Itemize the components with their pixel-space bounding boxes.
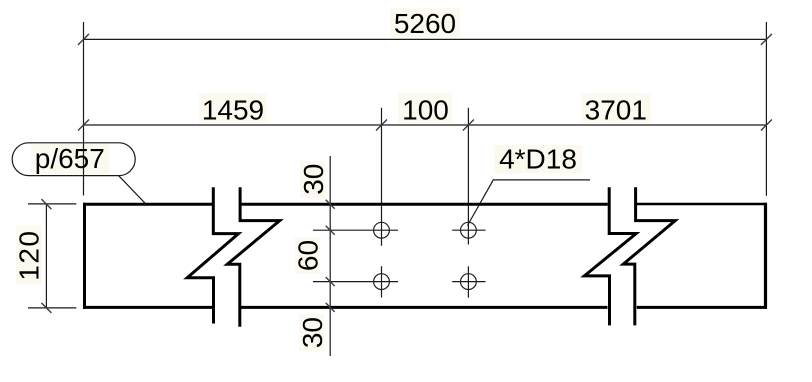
center line hole column 2 lower (467, 266, 469, 297)
text highlight p/657 (31, 144, 109, 174)
break 1 line B (227, 187, 279, 327)
text highlight 5260 (390, 8, 460, 37)
dimension 120 extension top (28, 203, 76, 205)
svg-text:3701: 3701 (585, 95, 647, 126)
dimension line 1459/100/3701 (84, 124, 767, 126)
beam bottom edge right segment (637, 306, 767, 309)
svg-text:30: 30 (298, 164, 329, 195)
svg-text:1459: 1459 (202, 95, 264, 126)
hole bottom-right (461, 274, 477, 290)
tick chain beam top (326, 200, 335, 209)
svg-text:60: 60 (293, 240, 324, 271)
hole bottom-left (374, 274, 390, 290)
center line hole column 1 lower (381, 266, 383, 297)
beam right edge (764, 203, 767, 309)
hole row 1 center line right column (452, 229, 485, 231)
beam bottom edge middle segment (241, 306, 608, 309)
beam top edge right segment (637, 203, 767, 205)
dimension 120 line (45, 204, 47, 309)
text highlight 1459 (199, 93, 267, 123)
svg-text:p/657: p/657 (35, 143, 105, 174)
break 2 line B (623, 187, 675, 325)
hole row 2 center line left column (313, 281, 398, 283)
text highlight 100 (398, 93, 452, 123)
hole top-left (374, 222, 390, 238)
tick dim2 x=83.5 (78, 120, 89, 131)
tick dim2 x=381.5 (376, 120, 387, 131)
text highlight 120 (16, 226, 42, 284)
text highlight 4*D18 (494, 145, 582, 173)
dimension 120 extension bottom (28, 307, 76, 309)
tick chain hole row 2 (326, 277, 335, 286)
svg-text:100: 100 (402, 95, 449, 126)
balloon p/657 (12, 143, 135, 176)
extension/center line hole column 2 upper (467, 108, 469, 245)
extension line left x=83.5 (83, 22, 85, 196)
tick chain hole row 1 (326, 226, 335, 235)
beam top edge middle segment (241, 203, 608, 206)
break 1 line A (187, 187, 238, 323)
dimension line 5260 (84, 38, 767, 40)
break 2 line A (584, 187, 636, 325)
hole top-right (461, 222, 477, 238)
svg-text:30: 30 (297, 317, 328, 348)
leader 4*D18 (468, 180, 591, 226)
svg-text:4*D18: 4*D18 (499, 144, 577, 175)
beam top edge left segment (83, 203, 212, 206)
tick dim2 x=766.4 (761, 120, 772, 131)
chain dimension line 30/60/30 (329, 156, 331, 356)
tick dim2 x=468.4 (463, 120, 474, 131)
beam left edge (83, 203, 86, 309)
text highlight 30 top (300, 161, 325, 198)
balloon leader (119, 176, 146, 204)
tick dim1 left (78, 34, 89, 45)
svg-text:5260: 5260 (394, 8, 456, 39)
tick 120 top (41, 199, 51, 209)
hole row 2 center line right column (452, 281, 485, 283)
svg-text:120: 120 (13, 229, 44, 280)
extension/center line hole column 1 upper (381, 108, 383, 246)
hole row 1 center line left column (313, 229, 398, 231)
text highlight 30 bottom (299, 314, 324, 351)
text highlight 60 (295, 237, 320, 274)
tick 120 bottom (41, 303, 51, 313)
tick chain beam bottom (326, 303, 335, 312)
extension line right x=766.4 (765, 22, 767, 196)
beam bottom edge left segment (83, 306, 212, 309)
tick dim1 right (761, 34, 772, 45)
text highlight 3701 (581, 93, 651, 123)
